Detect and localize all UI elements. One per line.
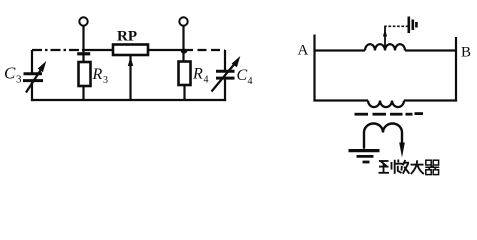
wire left edge lower: [31, 82, 33, 102]
svg-text:4: 4: [248, 76, 253, 87]
wire top segment junction A1 to RP: [84, 49, 113, 51]
ground (rotated) at top right: [409, 17, 417, 34]
label 到放大器 (hand-drawn strokes): [379, 160, 440, 175]
svg-text:3: 3: [103, 75, 108, 86]
wire top-right dashed segment: [184, 49, 225, 51]
svg-text:R: R: [92, 66, 103, 83]
inductor L2 bottom winding (3 scallops down): [368, 101, 404, 108]
wire R4 to bottom: [183, 85, 185, 100]
capacitor C3 (variable): [23, 61, 46, 93]
terminal T1 (circle): [79, 17, 87, 25]
svg-text:RP: RP: [117, 29, 137, 45]
node A terminal bar: [313, 35, 315, 102]
inductor L1 top winding (4 humps): [365, 44, 405, 50]
wire terminal T1 down: [82, 26, 84, 62]
char 大: [411, 160, 424, 174]
wire right edge upper: [224, 50, 226, 70]
ground under secondary: [349, 151, 380, 162]
wire bottom right of transformer loop: [404, 99, 457, 101]
wire R3 to bottom: [82, 86, 84, 100]
arrow to amplifier: [399, 140, 405, 158]
junction dot at node 2: [181, 49, 187, 54]
wire terminal T2 down: [182, 26, 184, 62]
resistor R4: [179, 62, 191, 86]
svg-text:A: A: [298, 43, 309, 59]
char 到: [379, 160, 395, 174]
char 放: [395, 160, 410, 174]
wiper of RP down to bottom wire: [129, 55, 131, 101]
wire bottom left of transformer loop: [313, 99, 368, 101]
svg-text:B: B: [461, 45, 471, 61]
wire top-left dash-dot segment of left tank box: [32, 49, 84, 51]
terminal T2 (circle): [179, 17, 187, 25]
wire left edge upper: [31, 50, 33, 73]
wire top right of transformer loop: [405, 49, 456, 51]
capacitor C4 (variable): [212, 56, 241, 92]
tap arrow: [383, 29, 387, 37]
wire top left of transformer loop: [315, 49, 366, 51]
char 器: [425, 160, 439, 174]
wire center tap up: [384, 26, 386, 48]
svg-text:C: C: [4, 64, 16, 83]
junction bar at node 1: [77, 52, 90, 55]
svg-text:C: C: [237, 67, 248, 84]
potentiometer RP: [113, 45, 148, 56]
svg-text:R: R: [192, 66, 203, 83]
resistor R3: [79, 62, 91, 86]
svg-text:4: 4: [204, 75, 209, 86]
svg-text:3: 3: [16, 74, 22, 86]
wire right edge lower: [224, 79, 226, 101]
inductor L3 secondary winding (2 humps): [364, 124, 402, 149]
wiper arrow dot: [128, 57, 133, 67]
node B terminal bar: [455, 37, 457, 101]
wire RP to right junction: [148, 49, 184, 51]
transformer core (dashed line): [355, 112, 424, 115]
wire bottom of left tank box: [31, 99, 226, 101]
